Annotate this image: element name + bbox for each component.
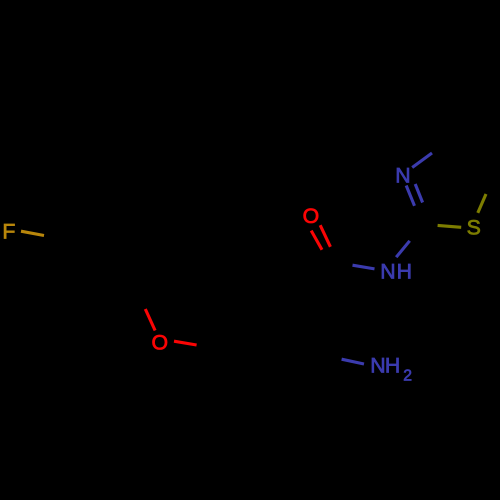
svg-text:O: O bbox=[303, 204, 320, 228]
svg-text:H: H bbox=[397, 260, 412, 284]
svg-text:F: F bbox=[2, 220, 15, 244]
svg-text:O: O bbox=[152, 330, 169, 354]
svg-text:N: N bbox=[370, 353, 385, 377]
svg-text:N: N bbox=[395, 164, 410, 188]
svg-text:2: 2 bbox=[403, 368, 412, 385]
svg-text:S: S bbox=[467, 216, 481, 240]
svg-text:H: H bbox=[385, 353, 400, 377]
svg-text:N: N bbox=[380, 260, 395, 284]
